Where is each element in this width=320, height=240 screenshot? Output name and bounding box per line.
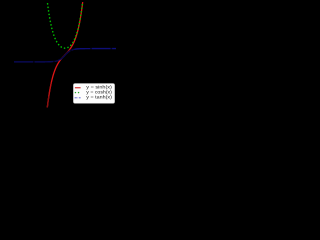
legend handle tanh blue dash-dot	[75, 97, 81, 99]
curve y=sinh(x) red solid	[47, 2, 82, 107]
sinh lowest tail darkest overlay	[47, 96, 49, 107]
background	[0, 0, 120, 120]
svg-text:y = tanh(x): y = tanh(x)	[86, 94, 112, 99]
sinh lower tail darker overlay	[47, 82, 51, 107]
legend handle cosh green dots	[75, 92, 79, 94]
curve y=tanh(x) blue dash-dot	[14, 49, 116, 62]
tanh slope dimming overlay	[55, 49, 74, 61]
legend box	[73, 84, 114, 104]
curve y=cosh(x) green dotted	[47, 2, 82, 48]
legend handle sinh red line	[75, 87, 81, 89]
tanh left segment dimming overlay	[14, 60, 56, 63]
